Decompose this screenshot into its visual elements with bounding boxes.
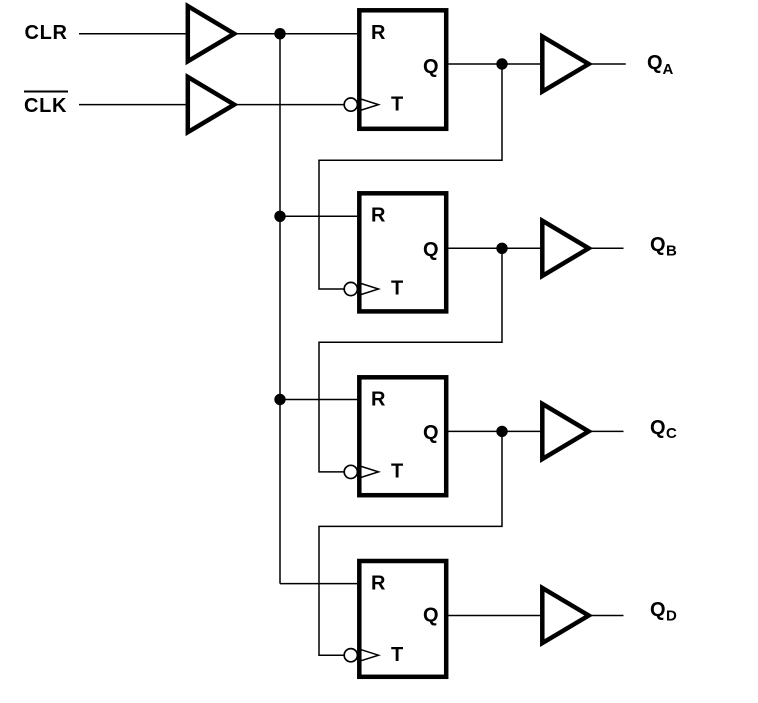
buffer U2 CLK input [188,77,234,132]
svg-text:T: T [391,644,403,666]
node CLR junction at FF3 R [274,394,285,405]
svg-text:CLK: CLK [24,95,67,117]
FF4 T inverting bubble [344,649,357,662]
node FF2 Q junction [496,243,507,254]
net label QB [650,234,677,259]
FF2 body [359,193,446,311]
node FF3 Q junction [496,426,507,437]
svg-text:Q: Q [423,239,439,261]
svg-text:R: R [371,22,386,44]
wire FF2 Q to output buffer [449,247,541,249]
flip-flop FF2 [344,193,446,311]
svg-text:Q: Q [423,56,439,78]
wire CLK lead [79,104,186,106]
FF2 T inverting bubble [344,282,357,295]
FF4 clock edge indicator [358,649,379,662]
node CLR junction at FF1 R [274,28,285,39]
wire CLR buffer output to FF1 R input [236,33,357,35]
svg-text:R: R [371,389,386,411]
FF3 clock edge indicator [358,465,379,478]
wire QC buffer output lead [590,430,624,432]
wire FF3 Q feedback to FF4 T [319,431,502,655]
FF1 T inverting bubble [344,98,357,111]
wire CLR vertical bus [279,34,281,584]
buffer U1 CLR input [188,6,234,61]
svg-text:Q: Q [650,599,666,621]
FF3 body [359,377,446,495]
wire CLR bus to FF4 R input [280,583,357,585]
wire FF4 Q to output buffer [449,615,541,617]
wire CLK buffer output to FF1 T bubble [236,104,345,106]
FF1 body [359,10,446,129]
svg-text:R: R [371,572,386,594]
buffer U5 QC output [542,404,588,459]
svg-text:T: T [391,93,403,115]
node FF1 Q junction [496,58,507,69]
wire CLR bus to FF3 R input [280,399,357,401]
wire CLR lead [79,33,186,35]
flip-flop FF4 [344,561,446,677]
flip-flop FF3 [344,377,446,495]
FF2 clock edge indicator [358,283,379,296]
net label QC [650,417,677,442]
svg-text:R: R [371,205,386,227]
wire CLR bus to FF2 R input [280,215,357,217]
svg-text:C: C [666,425,677,442]
buffer U4 QB output [542,221,588,276]
net label QA [647,52,674,78]
CLK overline bar [24,91,68,93]
wire FF3 Q to output buffer [449,430,541,432]
svg-text:A: A [663,61,674,78]
node CLR junction at FF2 R [274,211,285,222]
FF3 T inverting bubble [344,465,357,478]
svg-text:T: T [391,278,403,300]
svg-text:T: T [391,461,403,483]
svg-text:Q: Q [423,604,439,626]
svg-text:Q: Q [650,234,666,256]
wire QB buffer output lead [590,247,624,249]
wire QA buffer output lead [590,63,626,65]
wire FF1 Q to output buffer [449,63,541,65]
wire FF1 Q feedback to FF2 T [319,64,502,289]
FF4 body [359,561,446,677]
buffer U3 QA output [542,36,588,91]
wire FF2 Q feedback to FF3 T [319,248,502,472]
svg-text:CLR: CLR [25,22,68,44]
svg-text:Q: Q [650,417,666,439]
net label QD [650,599,677,625]
flip-flop FF1 [344,10,446,129]
buffer U6 QD output [542,588,588,643]
FF1 clock edge indicator [358,98,379,111]
svg-text:Q: Q [423,422,439,444]
wire QD buffer output lead [590,615,624,617]
svg-text:D: D [666,608,677,625]
svg-text:B: B [666,242,677,259]
svg-text:Q: Q [647,52,663,74]
